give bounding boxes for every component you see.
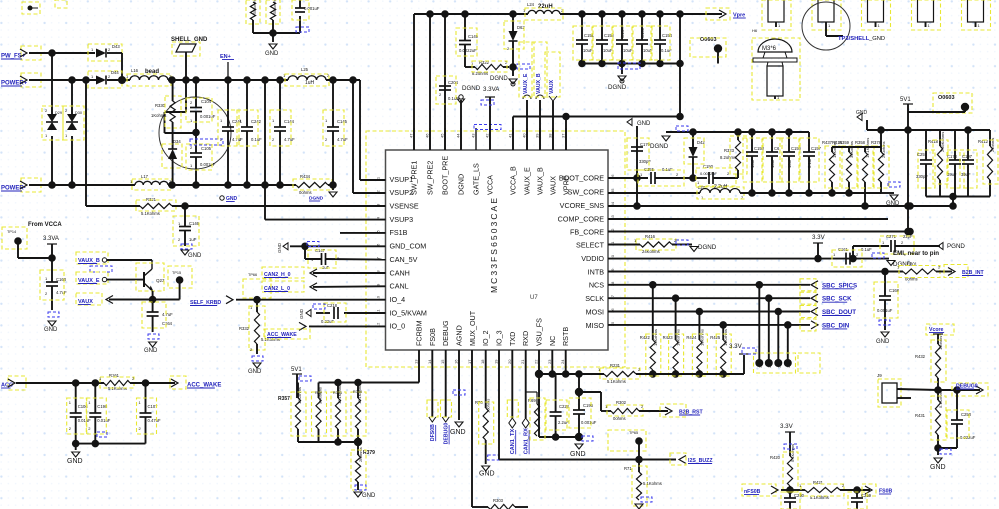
svg-text:IO_5/KVAM: IO_5/KVAM bbox=[390, 308, 427, 317]
svg-text:FS1B: FS1B bbox=[390, 228, 408, 237]
svg-text:21: 21 bbox=[520, 359, 525, 364]
svg-text:3.3V: 3.3V bbox=[780, 423, 794, 430]
svg-text:3.3VA: 3.3VA bbox=[43, 236, 59, 242]
svg-text:IO_0: IO_0 bbox=[390, 322, 406, 331]
svg-text:TP14: TP14 bbox=[7, 230, 16, 234]
svg-text:CANH: CANH bbox=[390, 268, 410, 277]
svg-text:C204: C204 bbox=[448, 80, 459, 85]
svg-text:R302: R302 bbox=[616, 400, 627, 405]
svg-text:C197: C197 bbox=[962, 154, 973, 159]
svg-text:30Kohms: 30Kohms bbox=[318, 387, 323, 404]
svg-text:19: 19 bbox=[494, 359, 499, 364]
svg-text:3.3V: 3.3V bbox=[812, 234, 826, 241]
svg-text:10uF: 10uF bbox=[787, 158, 792, 168]
svg-text:0ohms: 0ohms bbox=[299, 190, 312, 195]
svg-text:CAN1_TX: CAN1_TX bbox=[510, 429, 516, 455]
svg-text:GND: GND bbox=[277, 242, 282, 253]
svg-text:C144: C144 bbox=[284, 119, 295, 124]
svg-text:R361: R361 bbox=[333, 391, 342, 395]
svg-text:IO_3: IO_3 bbox=[495, 330, 504, 346]
svg-text:22: 22 bbox=[534, 359, 539, 364]
svg-text:5.1Kohms: 5.1Kohms bbox=[141, 211, 160, 216]
svg-text:GND: GND bbox=[362, 493, 376, 499]
svg-text:_GND: _GND bbox=[868, 36, 885, 42]
svg-text:0.1uF: 0.1uF bbox=[251, 137, 262, 142]
svg-text:18: 18 bbox=[480, 359, 485, 364]
svg-text:U7: U7 bbox=[530, 295, 538, 301]
svg-text:R330: R330 bbox=[155, 103, 166, 108]
svg-text:C104: C104 bbox=[201, 99, 212, 104]
svg-text:4.7uF: 4.7uF bbox=[162, 312, 173, 317]
svg-text:R434: R434 bbox=[300, 174, 311, 179]
svg-text:5V1: 5V1 bbox=[900, 97, 911, 103]
svg-text:0.1uF: 0.1uF bbox=[807, 157, 812, 168]
svg-text:GND_COM: GND_COM bbox=[390, 242, 427, 251]
svg-text:330pF: 330pF bbox=[916, 174, 928, 179]
svg-text:SW_CORE: SW_CORE bbox=[568, 188, 605, 197]
svg-text:0.01uF: 0.01uF bbox=[97, 418, 110, 423]
svg-text:TP65: TP65 bbox=[629, 431, 638, 435]
svg-text:INTB: INTB bbox=[588, 268, 605, 277]
svg-text:5V1: 5V1 bbox=[291, 367, 302, 373]
svg-text:AGND: AGND bbox=[455, 325, 464, 346]
svg-text:10Kohms: 10Kohms bbox=[699, 329, 704, 346]
svg-text:GND: GND bbox=[248, 369, 262, 375]
svg-text:GND: GND bbox=[144, 348, 158, 354]
svg-text:1uF: 1uF bbox=[189, 237, 197, 242]
svg-text:VCCA_B: VCCA_B bbox=[509, 166, 518, 195]
svg-text:0.1uF: 0.1uF bbox=[861, 247, 872, 252]
svg-text:C164: C164 bbox=[162, 321, 173, 326]
svg-text:39uF: 39uF bbox=[961, 172, 971, 177]
svg-text:VSUP3: VSUP3 bbox=[390, 215, 414, 224]
svg-text:FS0B: FS0B bbox=[428, 328, 437, 346]
svg-text:R425: R425 bbox=[710, 335, 721, 340]
svg-text:24Kohms: 24Kohms bbox=[642, 249, 660, 254]
svg-text:0.001uF: 0.001uF bbox=[200, 162, 216, 167]
svg-text:10Kohms: 10Kohms bbox=[676, 329, 681, 346]
svg-text:R357: R357 bbox=[278, 396, 290, 402]
svg-text:C15A: C15A bbox=[620, 27, 625, 38]
svg-text:EMI, near to pin: EMI, near to pin bbox=[893, 250, 939, 257]
svg-text:C159: C159 bbox=[640, 27, 645, 38]
svg-text:5.1Kohms: 5.1Kohms bbox=[938, 390, 943, 408]
svg-text:20: 20 bbox=[507, 359, 512, 364]
svg-text:C222: C222 bbox=[559, 404, 570, 409]
svg-text:SBC_DOUT: SBC_DOUT bbox=[822, 309, 856, 316]
svg-text:13: 13 bbox=[414, 359, 419, 364]
svg-text:14: 14 bbox=[427, 359, 432, 364]
svg-text:D44: D44 bbox=[111, 70, 119, 75]
svg-text:16: 16 bbox=[454, 359, 459, 364]
svg-text:VCORE_SNS: VCORE_SNS bbox=[560, 201, 605, 210]
svg-text:BOOT_PRE: BOOT_PRE bbox=[441, 156, 450, 195]
svg-text:VAUX_E: VAUX_E bbox=[523, 73, 529, 94]
svg-text:C242: C242 bbox=[251, 119, 262, 124]
svg-text:1Kohms: 1Kohms bbox=[151, 113, 166, 118]
svg-text:GND: GND bbox=[450, 429, 466, 436]
svg-text:C163: C163 bbox=[56, 277, 67, 282]
svg-text:44: 44 bbox=[456, 133, 461, 138]
svg-text:D29: D29 bbox=[55, 111, 62, 115]
svg-text:MC33FS6503CAE: MC33FS6503CAE bbox=[489, 198, 499, 293]
svg-text:5.1Kohms: 5.1Kohms bbox=[607, 379, 626, 384]
svg-text:VAUX: VAUX bbox=[549, 176, 558, 195]
svg-text:SW_PRE2: SW_PRE2 bbox=[426, 161, 435, 195]
svg-text:VAUX: VAUX bbox=[549, 79, 555, 94]
svg-text:O0603: O0603 bbox=[938, 95, 955, 101]
svg-text:10Kohms: 10Kohms bbox=[653, 329, 658, 346]
svg-text:COMP_CORE: COMP_CORE bbox=[558, 214, 605, 223]
svg-text:GND: GND bbox=[67, 458, 83, 465]
svg-text:10ohms: 10ohms bbox=[486, 399, 491, 413]
svg-text:45: 45 bbox=[440, 133, 445, 138]
svg-text:GND: GND bbox=[265, 51, 279, 57]
svg-text:L17: L17 bbox=[141, 174, 149, 179]
svg-text:PGND: PGND bbox=[947, 243, 965, 250]
svg-text:0.001uF: 0.001uF bbox=[877, 308, 893, 313]
svg-text:C146: C146 bbox=[189, 221, 200, 226]
svg-text:R303: R303 bbox=[493, 498, 504, 503]
svg-text:DGND: DGND bbox=[698, 244, 717, 251]
svg-text:0ohms: 0ohms bbox=[613, 416, 626, 421]
svg-text:30Kohms: 30Kohms bbox=[849, 141, 854, 158]
svg-text:TP3/SHELL: TP3/SHELL bbox=[838, 36, 870, 42]
svg-text:CANL: CANL bbox=[390, 282, 409, 291]
svg-text:10ohms: 10ohms bbox=[536, 398, 541, 412]
svg-text:GND: GND bbox=[570, 451, 586, 458]
svg-text:VCCA: VCCA bbox=[486, 175, 495, 195]
svg-text:2.49Kohms: 2.49Kohms bbox=[940, 132, 945, 152]
svg-text:0.01uF: 0.01uF bbox=[78, 418, 91, 423]
svg-text:VAUX_B: VAUX_B bbox=[536, 73, 542, 94]
svg-text:10Kohms: 10Kohms bbox=[723, 329, 728, 346]
svg-text:MUX_OUT: MUX_OUT bbox=[468, 310, 477, 346]
svg-text:VPRE: VPRE bbox=[562, 175, 571, 195]
svg-text:R420: R420 bbox=[770, 455, 781, 460]
svg-text:D30: D30 bbox=[75, 111, 82, 115]
svg-text:DEBUG: DEBUG bbox=[441, 320, 450, 346]
svg-text:1: 1 bbox=[787, 366, 791, 368]
svg-text:L24: L24 bbox=[527, 2, 535, 7]
svg-text:0.001uF: 0.001uF bbox=[581, 420, 597, 425]
svg-text:VAUX_E: VAUX_E bbox=[523, 167, 532, 195]
svg-text:TXD: TXD bbox=[508, 332, 517, 346]
svg-text:MOSI: MOSI bbox=[586, 307, 604, 316]
svg-text:C196: C196 bbox=[583, 403, 594, 408]
svg-text:4.7uF: 4.7uF bbox=[337, 137, 348, 142]
svg-text:24: 24 bbox=[560, 359, 565, 364]
svg-text:R323: R323 bbox=[724, 148, 735, 153]
svg-text:DGND: DGND bbox=[490, 76, 508, 82]
svg-text:SW_PRE1: SW_PRE1 bbox=[410, 161, 419, 195]
svg-text:NC: NC bbox=[548, 336, 557, 346]
svg-text:TP15: TP15 bbox=[172, 271, 181, 275]
svg-text:0.47uF: 0.47uF bbox=[148, 418, 161, 423]
svg-text:23: 23 bbox=[547, 359, 552, 364]
svg-text:DGND: DGND bbox=[608, 84, 627, 91]
svg-text:GND: GND bbox=[188, 253, 202, 259]
svg-text:R431: R431 bbox=[915, 413, 926, 418]
svg-text:VSU_FS: VSU_FS bbox=[535, 318, 544, 346]
svg-text:10uF: 10uF bbox=[770, 158, 775, 168]
svg-text:3.3V: 3.3V bbox=[729, 343, 743, 350]
svg-text:RXD: RXD bbox=[521, 331, 530, 346]
svg-text:C259: C259 bbox=[861, 493, 872, 498]
svg-text:10ohms: 10ohms bbox=[938, 336, 943, 350]
svg-text:C258: C258 bbox=[961, 412, 972, 417]
svg-text:GND: GND bbox=[299, 308, 304, 319]
svg-text:5.1Kohms: 5.1Kohms bbox=[643, 481, 662, 486]
svg-text:R424: R424 bbox=[686, 335, 697, 340]
svg-text:R423: R423 bbox=[663, 335, 674, 340]
svg-text:SBC_SPICS: SBC_SPICS bbox=[822, 282, 857, 289]
svg-text:TP66: TP66 bbox=[248, 273, 257, 277]
svg-text:15: 15 bbox=[440, 359, 445, 364]
svg-text:8.2ohms: 8.2ohms bbox=[720, 155, 736, 160]
svg-text:DGND: DGND bbox=[650, 143, 669, 150]
svg-text:38: 38 bbox=[548, 133, 553, 138]
svg-text:R231: R231 bbox=[610, 363, 621, 368]
svg-text:3.3VA: 3.3VA bbox=[483, 86, 500, 93]
svg-text:M3*6: M3*6 bbox=[762, 46, 777, 52]
svg-text:SELECT: SELECT bbox=[576, 241, 605, 250]
svg-text:CAN_5V: CAN_5V bbox=[390, 255, 418, 264]
svg-text:4.7uF: 4.7uF bbox=[284, 137, 295, 142]
svg-text:FB_CORE: FB_CORE bbox=[570, 228, 604, 237]
svg-text:0.0022uF: 0.0022uF bbox=[700, 171, 717, 176]
svg-text:GND: GND bbox=[876, 339, 890, 345]
svg-text:C218: C218 bbox=[327, 303, 338, 308]
svg-text:0.0022uF: 0.0022uF bbox=[459, 48, 477, 53]
svg-text:5.1Kohms: 5.1Kohms bbox=[790, 444, 795, 462]
svg-text:NCS: NCS bbox=[589, 281, 604, 290]
svg-text:FCRBM: FCRBM bbox=[415, 320, 424, 346]
svg-text:R360: R360 bbox=[353, 390, 362, 394]
svg-text:R416: R416 bbox=[645, 234, 656, 239]
svg-text:R82: R82 bbox=[315, 391, 322, 395]
svg-text:IO_4: IO_4 bbox=[390, 295, 406, 304]
svg-text:RSTB: RSTB bbox=[561, 327, 570, 346]
svg-text:10uF: 10uF bbox=[750, 158, 755, 168]
svg-text:47: 47 bbox=[409, 133, 414, 138]
svg-text:50Kohms: 50Kohms bbox=[253, 0, 257, 14]
svg-text:CAN1_RX: CAN1_RX bbox=[524, 428, 530, 454]
svg-text:C6: C6 bbox=[774, 146, 780, 151]
svg-text:46: 46 bbox=[425, 133, 430, 138]
svg-text:1: 1 bbox=[758, 366, 762, 368]
svg-text:GND: GND bbox=[856, 110, 868, 116]
svg-text:D34: D34 bbox=[173, 139, 181, 144]
svg-text:1uH: 1uH bbox=[305, 80, 315, 86]
svg-text:C154: C154 bbox=[662, 33, 673, 38]
svg-text:MISO: MISO bbox=[586, 321, 605, 330]
svg-text:SBC_SCK: SBC_SCK bbox=[822, 296, 852, 303]
svg-text:39: 39 bbox=[535, 133, 540, 138]
svg-text:C257: C257 bbox=[917, 152, 928, 157]
svg-text:SBC_DIN: SBC_DIN bbox=[822, 322, 850, 329]
svg-text:SCLK: SCLK bbox=[585, 294, 604, 303]
svg-text:0.022uF: 0.022uF bbox=[960, 435, 976, 440]
svg-text:R432: R432 bbox=[915, 354, 926, 359]
svg-text:13Kohms: 13Kohms bbox=[832, 141, 837, 158]
svg-text:DGND: DGND bbox=[457, 174, 466, 195]
svg-text:VDDIO: VDDIO bbox=[581, 254, 604, 263]
svg-text:4.7uF: 4.7uF bbox=[232, 137, 243, 142]
svg-text:VAUX_B: VAUX_B bbox=[536, 167, 545, 195]
svg-text:1: 1 bbox=[777, 366, 781, 368]
svg-text:0.001uF: 0.001uF bbox=[304, 6, 320, 11]
svg-text:H6: H6 bbox=[752, 28, 758, 33]
svg-text:R379: R379 bbox=[363, 450, 375, 456]
svg-text:GND: GND bbox=[637, 121, 651, 127]
svg-text:R422: R422 bbox=[640, 335, 651, 340]
svg-text:C105: C105 bbox=[201, 146, 212, 151]
svg-text:L25: L25 bbox=[301, 67, 309, 72]
svg-text:0.001uF: 0.001uF bbox=[200, 114, 216, 119]
svg-text:From VCCA: From VCCA bbox=[28, 222, 62, 228]
svg-text:1: 1 bbox=[768, 366, 772, 368]
svg-text:4.7uF: 4.7uF bbox=[56, 290, 67, 295]
svg-text:SHELL_GND: SHELL_GND bbox=[171, 37, 208, 43]
svg-text:GND: GND bbox=[44, 327, 58, 333]
svg-text:R71: R71 bbox=[624, 466, 632, 471]
svg-text:GATE_LS: GATE_LS bbox=[472, 163, 481, 195]
svg-text:50Kohms: 50Kohms bbox=[273, 0, 277, 14]
svg-text:43: 43 bbox=[471, 133, 476, 138]
svg-text:VSENSE: VSENSE bbox=[390, 202, 419, 211]
svg-text:O0603: O0603 bbox=[700, 37, 717, 43]
svg-text:C157: C157 bbox=[811, 146, 822, 151]
svg-text:GND: GND bbox=[479, 471, 495, 478]
svg-text:DEBUG0: DEBUG0 bbox=[444, 423, 450, 445]
svg-text:R332: R332 bbox=[239, 326, 250, 331]
svg-text:J9: J9 bbox=[877, 373, 882, 378]
svg-text:GND: GND bbox=[930, 464, 946, 471]
svg-text:D43: D43 bbox=[112, 44, 120, 49]
svg-text:C260: C260 bbox=[794, 493, 805, 498]
svg-text:IO_2: IO_2 bbox=[481, 330, 490, 346]
svg-text:DFS0B: DFS0B bbox=[430, 424, 436, 441]
svg-text:L16: L16 bbox=[131, 68, 139, 73]
svg-text:42: 42 bbox=[485, 133, 490, 138]
svg-text:40: 40 bbox=[522, 133, 527, 138]
svg-text:DGND: DGND bbox=[462, 85, 481, 92]
svg-text:37: 37 bbox=[561, 133, 566, 138]
svg-text:C178: C178 bbox=[947, 154, 958, 159]
svg-text:13Kohms: 13Kohms bbox=[297, 387, 302, 404]
svg-text:41: 41 bbox=[508, 133, 513, 138]
svg-text:C145: C145 bbox=[337, 119, 348, 124]
